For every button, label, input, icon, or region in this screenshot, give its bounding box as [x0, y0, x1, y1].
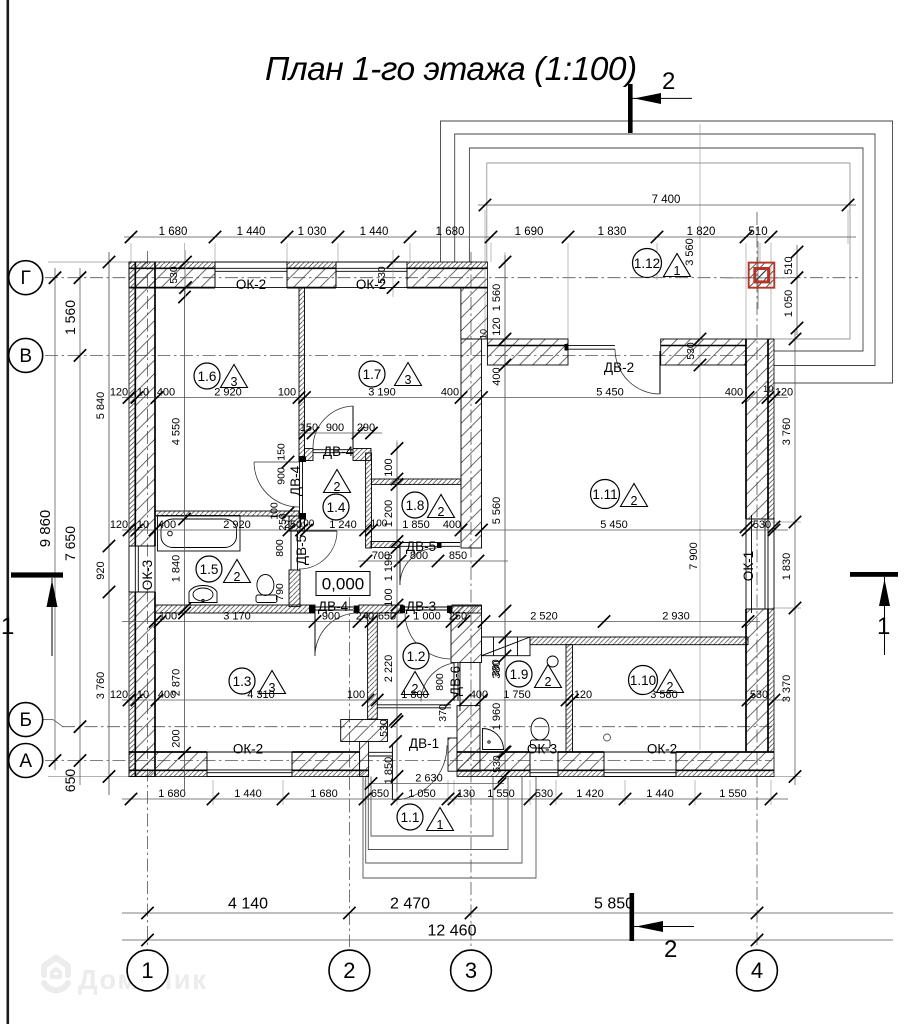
svg-text:400: 400: [158, 519, 176, 531]
axis 3 vertical: [470, 252, 472, 947]
svg-text:2: 2: [438, 505, 445, 519]
section mark 2 top: [628, 68, 692, 133]
wall corner top-right V2a: [461, 288, 488, 339]
window OK-3 room 1.9: [530, 752, 558, 777]
svg-text:2: 2: [667, 680, 674, 694]
svg-text:1.12: 1.12: [634, 256, 660, 271]
svg-text:1.1: 1.1: [401, 810, 420, 825]
terrace deck rect 1 (outer): [441, 121, 893, 383]
svg-text:650: 650: [62, 769, 78, 793]
dim row axis spans: [122, 896, 893, 920]
room 1.8: [402, 492, 455, 519]
svg-text:530: 530: [753, 519, 771, 531]
door DV-5 (hall to corridor 1.8 side): [400, 543, 438, 586]
svg-text:400: 400: [470, 689, 488, 701]
left exterior wall: [129, 262, 155, 777]
wall F (1.11 bottom): [530, 637, 748, 645]
svg-text:2: 2: [631, 494, 638, 508]
wall V5 (1.9/1.10): [566, 645, 573, 752]
axis B horizontal: [62, 726, 772, 728]
dim chain mid 505: [491, 255, 511, 770]
svg-text:1: 1: [437, 818, 444, 832]
svg-text:1 830: 1 830: [598, 226, 627, 238]
svg-text:1 050: 1 050: [783, 290, 795, 318]
svg-text:1 680: 1 680: [310, 788, 338, 800]
dim chain left 9860: [37, 268, 61, 770]
svg-text:1 830: 1 830: [781, 553, 793, 581]
room 1.11: [591, 480, 648, 509]
svg-text:План 1-го этажа (1:100): План 1-го этажа (1:100): [265, 51, 637, 88]
svg-text:10: 10: [137, 689, 149, 701]
door DV-4 (1.7 to hall): [313, 406, 353, 453]
door DV-3 (to room 1.2): [400, 606, 452, 660]
svg-text:1 550: 1 550: [487, 788, 515, 800]
svg-text:2: 2: [664, 936, 677, 963]
wall H3 seg2: [359, 605, 403, 613]
svg-text:1 240: 1 240: [329, 519, 357, 531]
axis V horizontal: [45, 354, 770, 356]
svg-text:2 520: 2 520: [530, 611, 558, 623]
svg-text:2 920: 2 920: [214, 387, 242, 399]
svg-text:10: 10: [479, 329, 489, 339]
svg-text:250: 250: [449, 611, 467, 623]
door DV-2 (terrace): [565, 344, 661, 394]
room 1.2: [402, 643, 430, 696]
svg-text:1: 1: [674, 264, 681, 278]
svg-text:3 760: 3 760: [95, 672, 107, 700]
svg-text:5 450: 5 450: [600, 519, 628, 531]
svg-text:3: 3: [405, 373, 412, 387]
dim row row C 700-800-850: [358, 550, 508, 567]
svg-text:800: 800: [434, 673, 446, 691]
svg-text:ОК-3: ОК-3: [527, 742, 557, 757]
dim row row 2630: [365, 773, 506, 790]
room 1.4: [323, 470, 351, 521]
room 1.3: [229, 668, 286, 695]
svg-text:100: 100: [347, 689, 365, 701]
svg-text:120: 120: [110, 689, 128, 701]
svg-text:А: А: [19, 751, 32, 772]
svg-text:120: 120: [110, 519, 128, 531]
svg-text:1 550: 1 550: [719, 788, 747, 800]
window OK-2 room 1.10: [604, 752, 676, 777]
axis 2 vertical: [348, 597, 350, 947]
toilet 1.5: [256, 575, 277, 603]
bathroom right wall upper piece: [289, 516, 300, 531]
dim chain left 5840-920-3760: [95, 252, 115, 795]
interior wall V2b upper (1.7-1.8 / 1.11): [461, 339, 482, 548]
dim chain right 3760-1830-3370: [781, 330, 801, 785]
svg-text:100: 100: [278, 387, 296, 399]
svg-text:1 750: 1 750: [503, 689, 531, 701]
svg-text:Г: Г: [21, 268, 31, 289]
svg-text:150: 150: [276, 443, 288, 461]
washbasin 1.5: [189, 586, 217, 603]
svg-text:9 860: 9 860: [37, 510, 54, 548]
svg-text:3: 3: [269, 681, 276, 695]
svg-text:10: 10: [137, 519, 149, 531]
svg-text:240: 240: [356, 611, 374, 623]
axis 1 vertical: [147, 251, 149, 948]
dim row row D: [122, 611, 760, 628]
svg-text:4: 4: [751, 958, 763, 983]
svg-text:3: 3: [231, 375, 238, 389]
svg-text:1 680: 1 680: [158, 788, 186, 800]
svg-text:3 190: 3 190: [368, 387, 396, 399]
svg-text:1.6: 1.6: [198, 369, 217, 384]
wall V3 (1.3/1.2): [368, 613, 378, 719]
bathroom right wall piece: [289, 570, 300, 607]
svg-text:ОК-2: ОК-2: [356, 277, 386, 292]
entrance block B: [457, 706, 480, 772]
svg-text:1 680: 1 680: [159, 226, 188, 238]
dim row top outer: [124, 226, 856, 243]
wall H3 seg1 (1.5|1.3): [155, 605, 315, 613]
svg-text:1: 1: [877, 613, 890, 640]
page left border: [7, 0, 10, 1024]
svg-text:1 850: 1 850: [402, 519, 430, 531]
svg-text:1.10: 1.10: [630, 673, 656, 688]
section mark 1 left: [1, 572, 63, 656]
window OK-2 room 1.6: [215, 262, 287, 288]
dim row bottom outer: [122, 788, 788, 805]
svg-text:5 450: 5 450: [596, 387, 624, 399]
svg-text:ДВ-5: ДВ-5: [406, 539, 436, 554]
svg-text:1 440: 1 440: [646, 788, 674, 800]
room 1.7: [359, 361, 422, 387]
window OK-3 room 1.5 left: [129, 546, 155, 592]
svg-text:530: 530: [491, 755, 503, 773]
svg-text:Б: Б: [19, 710, 31, 731]
svg-text:1 840: 1 840: [171, 555, 183, 583]
dim row row DV4 150-900-290: [298, 422, 382, 439]
DV-5 sidelight panel: [437, 542, 442, 548]
svg-text:850: 850: [449, 550, 467, 562]
dim chain left 1560-7650-650: [62, 268, 86, 792]
svg-text:370: 370: [437, 704, 449, 722]
section mark 2 bottom: [630, 893, 695, 963]
entrance jamb wall right: [448, 738, 457, 771]
svg-text:1.5: 1.5: [200, 562, 219, 577]
interior wall V2b lower: [451, 606, 482, 663]
svg-text:ДВ-1: ДВ-1: [409, 736, 439, 751]
svg-text:12 460: 12 460: [428, 923, 477, 940]
porch step rect 4 (inner): [371, 777, 493, 837]
svg-text:120: 120: [110, 387, 128, 399]
axis circles bottom: [127, 950, 168, 991]
svg-text:800: 800: [274, 539, 286, 557]
room 1.5: [196, 556, 251, 584]
svg-text:4 550: 4 550: [171, 418, 183, 446]
dim chain mid 397: [383, 442, 403, 792]
svg-text:2 630: 2 630: [415, 773, 443, 785]
axis A horizontal: [45, 760, 772, 762]
terrace deck rect 2: [455, 134, 875, 366]
svg-text:3 370: 3 370: [781, 675, 793, 703]
svg-text:2 870: 2 870: [171, 669, 183, 697]
room 1.9: [506, 661, 562, 689]
room 1.8 bottom wall left: [371, 542, 400, 548]
svg-text:1.3: 1.3: [233, 674, 252, 689]
svg-text:4 140: 4 140: [228, 896, 268, 913]
svg-text:510: 510: [783, 256, 795, 274]
porch step rect 1 (outer): [363, 777, 536, 879]
window OK-2 room 1.7: [336, 262, 407, 288]
svg-text:В: В: [19, 346, 32, 367]
axis G horizontal: [45, 277, 858, 279]
svg-text:7 400: 7 400: [652, 194, 681, 206]
svg-text:530: 530: [750, 689, 768, 701]
svg-text:1 560: 1 560: [491, 284, 503, 312]
svg-text:1.2: 1.2: [407, 649, 426, 664]
door DV-6 (1.2 to 1.9): [421, 663, 480, 712]
svg-text:1 960: 1 960: [491, 703, 503, 731]
svg-text:10: 10: [137, 387, 149, 399]
terrace deck rect 4 (inner, light): [487, 163, 850, 339]
svg-text:10: 10: [763, 384, 774, 395]
svg-text:2: 2: [343, 958, 355, 983]
toilet 1.9: [531, 718, 551, 748]
red column K1: [724, 241, 789, 309]
svg-text:ДВ-3: ДВ-3: [406, 599, 436, 614]
wall H1 left jamb: [305, 449, 314, 461]
terrace deck rect 3: [469, 148, 863, 351]
svg-text:ДВ-4: ДВ-4: [318, 599, 349, 614]
svg-text:100: 100: [383, 588, 395, 606]
svg-text:7 650: 7 650: [62, 526, 78, 561]
svg-text:120: 120: [574, 689, 592, 701]
svg-text:900: 900: [326, 422, 344, 434]
svg-text:1.4: 1.4: [327, 500, 346, 515]
svg-text:380: 380: [490, 659, 502, 677]
svg-text:ОК-2: ОК-2: [647, 742, 677, 757]
svg-text:130: 130: [457, 788, 475, 800]
dim chain mid 184: [171, 290, 191, 795]
svg-text:3 580: 3 580: [650, 689, 678, 701]
svg-text:400: 400: [491, 367, 503, 385]
room 1.8 top wall: [372, 479, 462, 484]
svg-text:2 920: 2 920: [223, 519, 251, 531]
svg-text:1 190: 1 190: [383, 554, 395, 582]
svg-text:ДВ-4: ДВ-4: [288, 465, 303, 496]
svg-text:1 680: 1 680: [436, 226, 465, 238]
svg-text:100: 100: [298, 519, 315, 530]
svg-text:530: 530: [535, 788, 553, 800]
svg-text:1 560: 1 560: [62, 300, 78, 335]
svg-text:5 840: 5 840: [95, 392, 107, 420]
floor drain 1.10: [604, 734, 611, 741]
svg-text:1 200: 1 200: [383, 500, 395, 528]
svg-text:530: 530: [168, 266, 180, 284]
svg-text:2: 2: [662, 68, 675, 95]
wall H3 seg3: [452, 605, 482, 613]
svg-text:3 170: 3 170: [223, 611, 251, 623]
svg-text:1: 1: [141, 958, 153, 983]
wall H1 right piece: [353, 449, 371, 461]
porch step rect 2: [366, 777, 522, 864]
corner washbasin 1.9: [483, 729, 504, 750]
svg-text:150: 150: [300, 422, 318, 434]
axis 4 vertical: [756, 212, 758, 947]
svg-text:1.8: 1.8: [406, 498, 425, 513]
svg-text:ОК-2: ОК-2: [233, 742, 263, 757]
svg-text:2: 2: [545, 675, 552, 689]
bathtub: [158, 516, 241, 552]
svg-text:200: 200: [171, 729, 183, 747]
svg-text:5 560: 5 560: [491, 497, 503, 525]
dim row row A: [110, 387, 793, 404]
svg-text:2 930: 2 930: [662, 611, 690, 623]
top exterior wall: [129, 262, 487, 288]
svg-text:ДВ-6: ДВ-6: [448, 666, 463, 696]
svg-text:1.11: 1.11: [592, 487, 617, 502]
svg-text:1 850: 1 850: [383, 757, 395, 785]
svg-text:5 850: 5 850: [594, 896, 634, 913]
svg-text:1.7: 1.7: [363, 367, 382, 382]
section mark 1 right: [850, 572, 898, 655]
svg-text:510: 510: [748, 226, 767, 238]
door DV-4 (hall to 1.6): [254, 456, 306, 519]
svg-text:400: 400: [443, 519, 461, 531]
room 1.1: [397, 804, 454, 832]
svg-text:ДВ-2: ДВ-2: [604, 360, 634, 375]
svg-text:400: 400: [441, 387, 459, 399]
svg-text:250: 250: [277, 513, 289, 531]
entrance step block A: [341, 720, 388, 742]
dim row overall 12460: [122, 923, 893, 947]
svg-text:7 900: 7 900: [688, 542, 700, 570]
axis B circle leader: [43, 719, 53, 721]
door DV-1 (entrance): [369, 745, 447, 800]
watermark Domclick: [44, 958, 68, 991]
svg-text:100: 100: [159, 611, 177, 623]
svg-text:290: 290: [357, 422, 375, 434]
extension lines: [48, 124, 848, 805]
svg-text:900: 900: [276, 467, 288, 485]
svg-text:3: 3: [465, 958, 477, 983]
svg-text:1 690: 1 690: [515, 226, 544, 238]
svg-text:530: 530: [378, 719, 390, 737]
svg-text:1: 1: [1, 613, 14, 640]
axis circles left: [9, 261, 43, 295]
interior wall V1 (1.6/1.7): [299, 288, 305, 457]
svg-text:1 820: 1 820: [687, 226, 716, 238]
level mark 0,000: [316, 572, 370, 596]
bathroom top wall H2: [155, 511, 299, 516]
svg-text:ОК-2: ОК-2: [236, 277, 266, 292]
entrance jamb wall left: [360, 742, 369, 777]
svg-text:1 440: 1 440: [234, 788, 262, 800]
window OK-1 room 1.11 right: [746, 515, 774, 613]
svg-text:100: 100: [383, 458, 395, 476]
svg-text:120: 120: [491, 317, 503, 335]
room 1.12: [633, 249, 691, 279]
vestibule step edge: [377, 704, 451, 706]
window OK-2 room 1.3: [207, 752, 292, 777]
terrace-side wall with DV-2: [487, 339, 745, 365]
interior wall V1 piece: [289, 516, 305, 531]
svg-text:1 050: 1 050: [408, 788, 436, 800]
dim row row B: [110, 519, 788, 536]
svg-text:920: 920: [95, 561, 107, 579]
svg-text:2: 2: [412, 682, 419, 696]
svg-text:1.9: 1.9: [510, 667, 529, 682]
svg-text:1 420: 1 420: [576, 788, 604, 800]
room 1.6: [194, 363, 248, 389]
svg-text:2 470: 2 470: [390, 896, 430, 913]
dim row row E: [110, 689, 788, 706]
svg-text:120: 120: [775, 387, 793, 399]
room 1.10: [629, 666, 684, 695]
svg-text:400: 400: [725, 387, 743, 399]
boiler circle 1.9: [547, 656, 558, 667]
svg-text:1 030: 1 030: [298, 226, 327, 238]
svg-text:ОК-1: ОК-1: [741, 551, 756, 581]
svg-text:650: 650: [371, 788, 389, 800]
svg-text:2 220: 2 220: [383, 655, 395, 683]
svg-text:ОК-3: ОК-3: [140, 560, 155, 590]
stairs between 1.11 and 1.9: [482, 637, 531, 656]
door DV-4 (to room 1.3): [309, 606, 360, 657]
svg-text:1 440: 1 440: [360, 226, 389, 238]
svg-text:ДВ-5: ДВ-5: [294, 535, 309, 565]
hall/1.8 thin wall: [366, 453, 372, 548]
bottom exterior wall: [129, 752, 774, 777]
porch step rect 3: [368, 777, 508, 850]
right exterior wall: [746, 339, 774, 752]
dim row terrace 7400: [478, 194, 856, 211]
svg-text:2: 2: [334, 480, 341, 494]
svg-text:0,000: 0,000: [322, 575, 365, 594]
door DV-5 (hall to 1.5): [291, 531, 337, 570]
svg-text:400: 400: [157, 387, 175, 399]
svg-text:790: 790: [274, 583, 286, 601]
svg-text:1 440: 1 440: [237, 226, 266, 238]
svg-text:3 760: 3 760: [781, 418, 793, 446]
svg-text:ДВ-4: ДВ-4: [323, 444, 354, 459]
dim chain terrace right 510-1050: [783, 245, 803, 335]
svg-text:3 560: 3 560: [684, 238, 696, 266]
svg-text:2: 2: [234, 570, 241, 584]
